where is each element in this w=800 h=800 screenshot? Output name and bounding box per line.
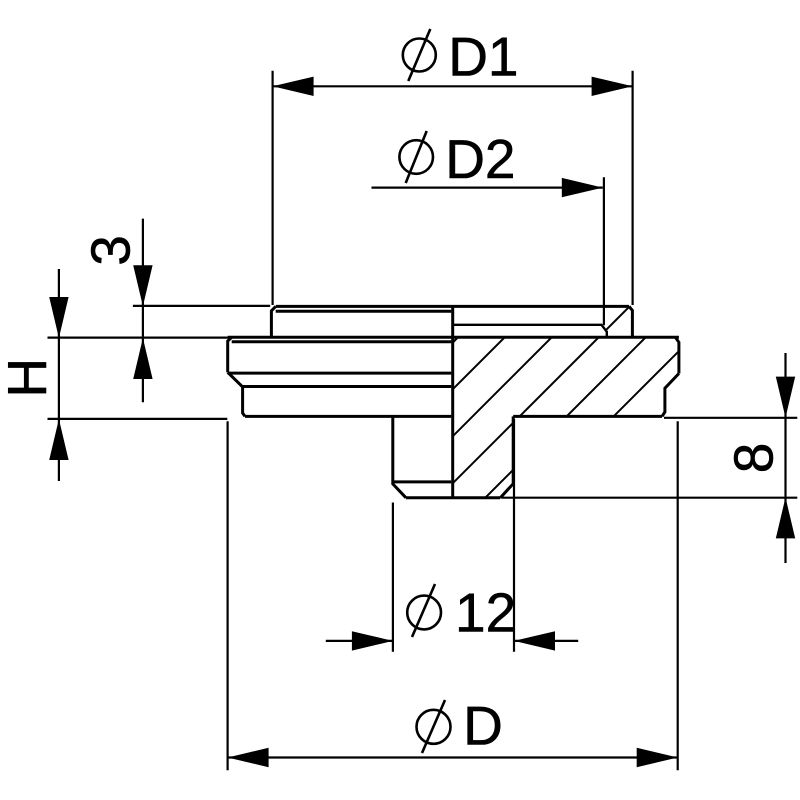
dim 3/H shared extension	[48, 337, 232, 339]
arrow D2 right	[562, 178, 603, 197]
dim H extension bottom	[48, 418, 228, 420]
svg-text:D2: D2	[445, 128, 515, 190]
arrow D left	[228, 748, 269, 767]
dim D line	[228, 756, 678, 758]
dim D1 extension left	[272, 71, 274, 305]
recess floor edge with corner undercut (right half)	[453, 325, 607, 338]
diameter symbol for 12	[407, 584, 441, 637]
arrow D right	[637, 748, 678, 767]
flange top face edge	[228, 336, 679, 339]
diameter symbol for D2	[399, 131, 433, 183]
boss top face edge	[276, 305, 629, 308]
svg-text:H: H	[0, 358, 58, 398]
arrow D1 left	[273, 77, 314, 96]
stub bottom face	[406, 496, 500, 499]
arrow H bottom	[49, 419, 68, 460]
dim 3 line	[142, 219, 144, 403]
arrow 8 top	[776, 377, 795, 418]
dim 12 line left part	[326, 640, 393, 642]
stub right edge	[500, 416, 513, 497]
dim D1 line	[273, 85, 633, 87]
boss top-right chamfer and rim outer wall	[629, 306, 632, 337]
flange top chamfer circle edge (left half)	[232, 340, 452, 343]
arrow dim 3 bottom	[133, 338, 152, 379]
diameter symbol for D	[417, 700, 451, 753]
dim D2 line	[372, 187, 603, 189]
flange lower-right 45 chamfer	[662, 374, 679, 417]
boss chamfer circle edge (left half)	[276, 310, 452, 313]
arrow dim 3 top	[133, 265, 152, 306]
dim 8 extension bottom	[502, 497, 797, 499]
dim D extension right	[677, 421, 679, 770]
arrow 12 right	[514, 631, 555, 650]
dim 12 line right part	[514, 640, 578, 642]
flange top-right chamfer and right wall	[675, 337, 679, 373]
dim 12 extension right	[513, 419, 515, 652]
arrow 12 left	[352, 631, 393, 650]
arrow H top	[49, 297, 68, 338]
flange bottom face right segment	[513, 415, 662, 418]
arrow D1 right	[592, 77, 633, 96]
dim 3 extension top	[133, 305, 270, 307]
part outline	[228, 306, 679, 497]
boss top-left chamfer	[271, 306, 275, 337]
dim 12 extension left	[392, 503, 394, 652]
dim 8 line	[784, 353, 786, 563]
dim D1 extension right	[631, 71, 633, 305]
dim H line	[58, 269, 60, 481]
dim D extension left	[227, 421, 229, 770]
dim D2 extension right	[603, 177, 605, 325]
section boundary center line	[451, 306, 454, 497]
svg-text:12: 12	[455, 581, 516, 643]
svg-text:D: D	[463, 695, 503, 757]
flange relief chamfer bottom circle edge (left half)	[243, 385, 452, 388]
hatching: section lines 45deg in flange/stub (right half)	[355, 0, 800, 500]
svg-text:D1: D1	[448, 25, 518, 87]
arrow 8 bottom	[776, 497, 795, 538]
svg-text:8: 8	[723, 443, 785, 474]
diameter symbol for D1	[403, 29, 436, 81]
flange bottom face left segment	[245, 415, 451, 418]
hatching: section line in top rim ring	[436, 0, 800, 500]
flange lower-left 45 chamfer	[228, 372, 245, 416]
svg-text:3: 3	[80, 235, 142, 266]
stub chamfer circle edge (left half)	[393, 480, 452, 483]
stub left edge	[393, 416, 406, 497]
flange top-left chamfer	[228, 337, 232, 372]
dim 8 extension top	[664, 417, 797, 419]
flange relief chamfer top circle edge (left half)	[228, 372, 452, 375]
